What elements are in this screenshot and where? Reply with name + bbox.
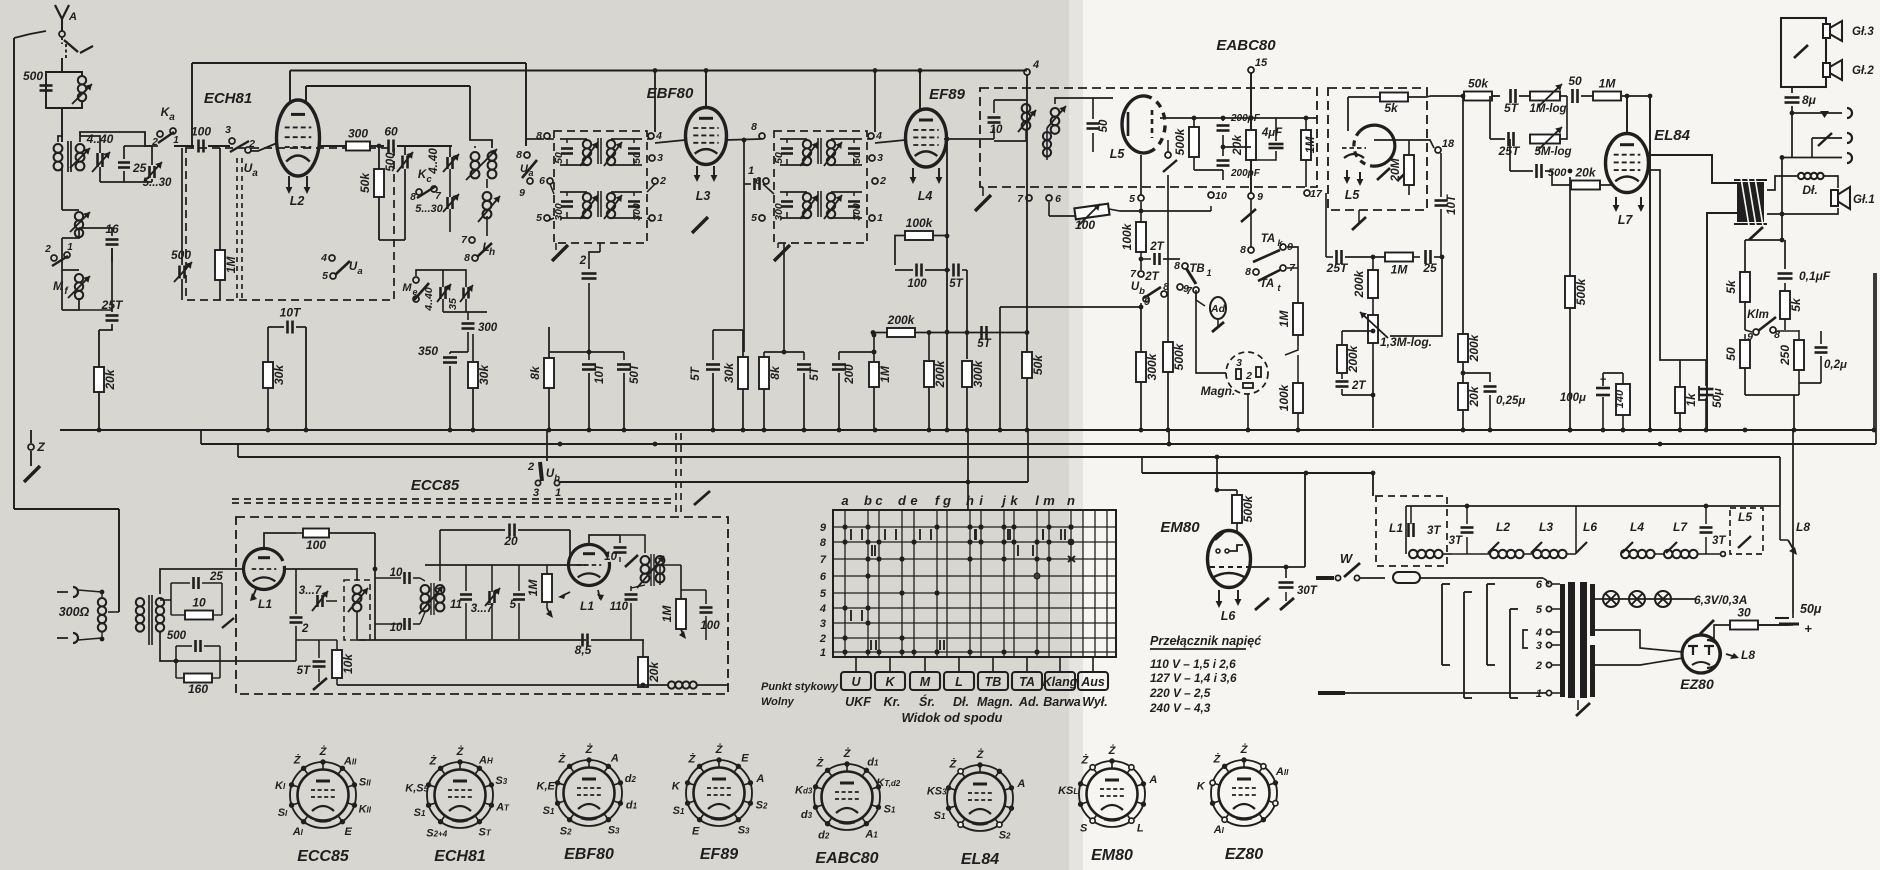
- resistor 30k (AGC): [267, 327, 269, 362]
- svg-text:6: 6: [539, 175, 545, 187]
- svg-text:110: 110: [610, 601, 629, 613]
- svg-text:L5: L5: [1110, 147, 1126, 161]
- svg-text:SI: SI: [278, 807, 288, 819]
- switch 3-2 band: [229, 138, 235, 144]
- heater lamps: [1588, 598, 1598, 600]
- IF cap: [628, 147, 640, 150]
- wire into detector box: [988, 139, 990, 141]
- svg-text:5...30: 5...30: [143, 177, 172, 189]
- osc transformer: [421, 585, 430, 594]
- heater ground blade: [1700, 620, 1714, 634]
- resistor 1M (AF out): [1301, 130, 1311, 160]
- svg-text:Magn.: Magn.: [1201, 384, 1236, 398]
- IF wires: [560, 138, 587, 140]
- resistor 500k (detector load): [1189, 127, 1199, 157]
- IF coil pair: [803, 140, 811, 148]
- svg-text:6: 6: [820, 571, 827, 583]
- svg-text:100μ: 100μ: [1560, 392, 1586, 404]
- svg-text:L8: L8: [1796, 520, 1810, 534]
- switch TB1: [1182, 263, 1188, 269]
- svg-text:ECC85: ECC85: [297, 848, 350, 865]
- svg-text:0,2μ: 0,2μ: [1824, 359, 1847, 371]
- cap 50T: [623, 352, 625, 360]
- svg-text:L4: L4: [1630, 520, 1644, 534]
- svg-text:35: 35: [447, 298, 459, 310]
- output transformer ground: [1749, 227, 1763, 240]
- pin diagram EL84: [947, 765, 1013, 831]
- wire from 20k bottom: [641, 683, 646, 688]
- resistor 500k (EL84 grid leak): [1565, 276, 1575, 308]
- top bus y70: [290, 70, 1027, 72]
- svg-text:L1: L1: [258, 597, 272, 611]
- IF coil pair: [583, 193, 591, 201]
- svg-text:d: d: [898, 493, 907, 508]
- IF coil pair: [803, 193, 811, 201]
- IF wires: [560, 191, 587, 193]
- cap 5T (ecc85): [313, 660, 326, 663]
- svg-text:L6: L6: [1583, 520, 1597, 534]
- svg-text:1: 1: [748, 165, 754, 177]
- wires IF2 right: [867, 138, 871, 140]
- cap 5T: [803, 352, 805, 360]
- svg-text:1M: 1M: [224, 256, 238, 274]
- svg-text:d2: d2: [625, 773, 637, 785]
- resistor 300k: [962, 361, 972, 387]
- svg-text:W: W: [1340, 551, 1354, 566]
- cap 10 (triode2 plate): [619, 535, 621, 543]
- pin diagram EM80: [1079, 761, 1145, 827]
- svg-text:ECH81: ECH81: [434, 848, 486, 865]
- svg-text:300: 300: [478, 322, 498, 334]
- tube EABC80 (detector triode+diodes): [1122, 96, 1149, 153]
- osc out transformer: [641, 556, 650, 565]
- IF cap: [561, 200, 573, 203]
- resistor 30k (osc grid): [472, 352, 474, 358]
- switch TAk: [1248, 247, 1254, 253]
- svg-text:TB: TB: [985, 675, 1002, 689]
- jack hooks: [73, 587, 78, 597]
- svg-text:1M: 1M: [1277, 310, 1291, 328]
- resistor 20k: [1246, 130, 1256, 160]
- resistor 8k: [548, 327, 550, 358]
- chain mid drops: [1489, 506, 1491, 546]
- svg-text:1M-log: 1M-log: [1529, 103, 1566, 115]
- tube EL84: [1606, 134, 1649, 193]
- B+ from EZ80: [1720, 653, 1731, 655]
- ground IF1: [552, 245, 568, 261]
- matrix grid verticals: [844, 510, 846, 657]
- svg-text:Z: Z: [36, 440, 45, 454]
- cap 50u (cathode bypass): [1699, 388, 1714, 391]
- L5 dashed box (chain): [1730, 508, 1763, 554]
- svg-text:d1: d1: [626, 799, 638, 811]
- cap 200pF bottom: [1217, 159, 1230, 162]
- svg-text:Ż: Ż: [558, 752, 567, 765]
- matrix frame: [833, 510, 1116, 657]
- svg-text:5: 5: [751, 212, 757, 224]
- top bus y86: [306, 85, 470, 87]
- svg-text:ECH81: ECH81: [204, 90, 252, 107]
- cap 25 parallel: [192, 577, 195, 589]
- svg-text:S2: S2: [756, 799, 768, 811]
- svg-text:1: 1: [1206, 268, 1211, 278]
- wire grid return: [305, 327, 307, 428]
- svg-text:2: 2: [44, 244, 51, 255]
- selector button L: [958, 657, 960, 672]
- switch TAt: [1253, 269, 1259, 275]
- svg-text:10: 10: [990, 124, 1003, 136]
- tube EBF80: [686, 108, 727, 165]
- cap 100: [915, 264, 918, 277]
- svg-text:S1: S1: [414, 807, 426, 819]
- svg-text:Ż: Ż: [293, 753, 302, 766]
- feedback network: resistor 5k: [1740, 272, 1750, 302]
- svg-text:EABC80: EABC80: [1216, 37, 1276, 54]
- resistor 100 (triode1 plate): [303, 529, 329, 538]
- varcap 3...7 (2): [488, 591, 491, 603]
- svg-text:20k: 20k: [1574, 166, 1596, 180]
- svg-text:20k: 20k: [1230, 134, 1244, 156]
- wires Magn: [1196, 290, 1226, 373]
- svg-text:5k: 5k: [1789, 297, 1803, 312]
- svg-text:Ż: Ż: [976, 748, 985, 761]
- svg-text:c: c: [875, 493, 883, 508]
- ratio detector cap 10: [988, 116, 1001, 119]
- fuse: [1393, 572, 1420, 583]
- svg-text:TA: TA: [1261, 233, 1275, 245]
- cap 10T (below 18): [1440, 153, 1442, 197]
- svg-text:Ad.: Ad.: [1018, 695, 1039, 709]
- cap 25T: [106, 314, 119, 317]
- svg-text:300: 300: [553, 203, 565, 221]
- svg-text:30k: 30k: [272, 364, 286, 385]
- svg-text:d3: d3: [801, 809, 813, 821]
- EL84 plate wire: [1648, 155, 1737, 183]
- svg-text:3: 3: [1236, 357, 1242, 369]
- svg-text:3: 3: [820, 618, 826, 630]
- svg-text:L7: L7: [1618, 213, 1634, 227]
- EM80 ground blade: [1255, 598, 1269, 610]
- svg-text:E: E: [345, 826, 353, 838]
- svg-text:E: E: [692, 825, 700, 837]
- resistor 30k: [742, 330, 744, 357]
- svg-text:TA: TA: [1019, 675, 1035, 689]
- resistor 200k (volume feed): [1462, 96, 1464, 334]
- svg-text:10: 10: [604, 551, 617, 563]
- antenna A: [55, 5, 69, 19]
- svg-text:2: 2: [1245, 370, 1252, 382]
- svg-text:5k: 5k: [1384, 101, 1399, 115]
- left edge vertical wire: [13, 38, 15, 428]
- switch Mf 2-1: [51, 255, 57, 261]
- switch Ua 8-9 (IF1): [524, 152, 530, 158]
- svg-text:E: E: [741, 752, 749, 764]
- svg-text:25: 25: [209, 571, 223, 583]
- matrix feed wire: [967, 430, 969, 510]
- svg-text:8k: 8k: [768, 365, 782, 380]
- svg-text:100: 100: [191, 125, 211, 139]
- svg-text:15: 15: [1255, 57, 1268, 69]
- cap 0,25u: [1463, 373, 1490, 382]
- resistor 1M (osc grid): [542, 574, 552, 602]
- svg-text:2: 2: [879, 175, 886, 187]
- terminal 7 / switch Ub: [1138, 271, 1144, 277]
- heater line bottom of box: [337, 684, 668, 686]
- cap 200: [838, 352, 840, 360]
- B+ lead to output transformer: [1707, 213, 1737, 430]
- svg-text:KSL: KSL: [1058, 785, 1078, 797]
- cap 110: [625, 593, 638, 596]
- svg-text:EM80: EM80: [1091, 847, 1133, 864]
- svg-text:4: 4: [1535, 627, 1542, 639]
- pot 1M-log: [1530, 92, 1560, 101]
- svg-text:1k: 1k: [1684, 392, 1698, 407]
- EM80 heater arrows L6: [1218, 590, 1220, 603]
- svg-text:L1: L1: [580, 599, 594, 613]
- svg-text:Ż: Ż: [843, 747, 852, 760]
- cap 3T (2): [1461, 526, 1474, 529]
- wires TA: [1250, 199, 1252, 247]
- wire speaker net vertical: [1811, 138, 1813, 158]
- svg-text:Ż: Ż: [1081, 753, 1090, 766]
- svg-text:2: 2: [1535, 660, 1542, 672]
- headphone jacks: [1820, 111, 1829, 118]
- svg-text:2T: 2T: [1149, 241, 1164, 253]
- resistor 50k: [1026, 75, 1028, 352]
- svg-text:500k: 500k: [1173, 127, 1187, 155]
- selector button U: [855, 657, 857, 672]
- ECC85 triode 1: [244, 548, 285, 589]
- EF89 plate vertical: [946, 140, 948, 428]
- ground blade under box: [1352, 217, 1366, 230]
- svg-text:EF89: EF89: [700, 846, 738, 863]
- matrix bridges row4-3: [850, 610, 852, 621]
- svg-text:Ż: Ż: [319, 745, 328, 758]
- svg-text:S1: S1: [934, 810, 946, 822]
- svg-text:4μF: 4μF: [1261, 127, 1283, 139]
- svg-text:50k: 50k: [1031, 354, 1045, 375]
- cap 50 (EQ): [1571, 89, 1574, 103]
- svg-text:KII: KII: [359, 804, 372, 816]
- main bus y444: [201, 443, 1876, 445]
- wire IF2 bottom: [783, 243, 785, 352]
- L1 chain coil: [1409, 550, 1417, 558]
- svg-text:1M: 1M: [1599, 77, 1617, 91]
- wire Ub down: [1140, 303, 1142, 307]
- cap 2T: [1336, 380, 1349, 383]
- resistor 20k (EL84 grid): [1545, 171, 1571, 185]
- wire: [370, 145, 384, 147]
- svg-text:M: M: [920, 675, 931, 689]
- heater line y482 (Ub): [560, 481, 1028, 483]
- wire osc net: [374, 533, 376, 640]
- svg-text:500: 500: [23, 69, 43, 83]
- terminal 7 8 Lh switch: [469, 237, 475, 243]
- svg-text:100k: 100k: [906, 216, 934, 230]
- svg-text:Kr.: Kr.: [884, 695, 901, 709]
- svg-text:200k: 200k: [1346, 344, 1360, 373]
- ECC85 dashed box: [236, 517, 728, 694]
- speaker Gl.3: [1823, 24, 1830, 38]
- svg-text:KT,d2: KT,d2: [876, 777, 900, 789]
- svg-text:S: S: [1080, 823, 1088, 835]
- svg-text:L: L: [1137, 823, 1144, 835]
- svg-text:1M: 1M: [660, 605, 674, 623]
- svg-text:5T: 5T: [690, 366, 702, 380]
- svg-text:d2: d2: [818, 829, 830, 841]
- svg-text:8μ: 8μ: [1802, 93, 1817, 107]
- input transformer wires: [78, 588, 102, 594]
- pot 5M-log: [1530, 135, 1560, 144]
- svg-text:Ż: Ż: [816, 756, 825, 769]
- main bus y430: [60, 429, 1876, 431]
- svg-text:S3: S3: [495, 775, 507, 787]
- svg-text:2: 2: [151, 137, 158, 148]
- wire 5 to network: [1140, 202, 1142, 211]
- cap 60: [387, 140, 390, 153]
- svg-text:1: 1: [657, 212, 663, 224]
- svg-text:18: 18: [1442, 138, 1455, 150]
- resistor 20k (osc): [638, 657, 648, 687]
- cap 200pF top: [1217, 124, 1230, 127]
- svg-text:8: 8: [410, 192, 416, 203]
- EZ80 wires: [1595, 630, 1683, 652]
- cap 5: [513, 593, 525, 596]
- svg-text:500: 500: [385, 152, 397, 172]
- svg-text:Klm: Klm: [1747, 309, 1769, 321]
- svg-text:1M: 1M: [1391, 263, 1409, 277]
- svg-text:9: 9: [1257, 191, 1263, 203]
- svg-text:A: A: [755, 773, 764, 785]
- ground Z: [24, 466, 40, 482]
- svg-text:50: 50: [631, 152, 643, 164]
- svg-text:30: 30: [1737, 606, 1751, 620]
- tank circuit 500 / L: [46, 72, 62, 108]
- svg-text:1M: 1M: [1303, 136, 1317, 154]
- wire Ub horizontal: [1000, 306, 1141, 308]
- loop 25/10: [170, 578, 172, 612]
- svg-text:5T: 5T: [1504, 101, 1520, 115]
- svg-text:l: l: [1035, 493, 1039, 508]
- oscillator coil lower: [483, 192, 492, 201]
- cap 50: [1087, 122, 1100, 125]
- svg-text:Gł.2: Gł.2: [1852, 65, 1874, 77]
- svg-text:60: 60: [384, 125, 398, 139]
- speaker wires: [1767, 176, 1797, 190]
- svg-text:3: 3: [657, 152, 663, 164]
- cap 350: [443, 356, 457, 359]
- cap 300: [462, 322, 475, 325]
- svg-text:M: M: [402, 282, 412, 294]
- svg-text:AI: AI: [292, 826, 304, 838]
- mains line bottom: [1318, 691, 1345, 695]
- cap 5T: [712, 330, 714, 360]
- coil Mf variable: [75, 274, 83, 282]
- resistor 20k (volume divider): [1458, 383, 1468, 410]
- svg-text:KS3: KS3: [927, 785, 947, 797]
- switch Ub heater: [546, 430, 548, 461]
- switch Me: [413, 277, 419, 283]
- svg-text:50: 50: [851, 152, 863, 164]
- wire jacks: [1809, 138, 1811, 158]
- svg-text:2: 2: [819, 633, 826, 645]
- svg-text:1: 1: [1536, 688, 1542, 700]
- blade near dashed feed: [694, 491, 710, 505]
- svg-text:Gł.1: Gł.1: [1853, 194, 1875, 206]
- svg-text:1,3M-log.: 1,3M-log.: [1380, 335, 1432, 349]
- triode2 top bus wire: [425, 564, 586, 566]
- EM80 right wire: [1250, 566, 1305, 568]
- svg-text:Wolny: Wolny: [761, 696, 795, 708]
- ganged tuning dashed link: [236, 158, 238, 300]
- svg-text:n: n: [1067, 493, 1075, 508]
- svg-text:EM80: EM80: [1160, 519, 1200, 536]
- svg-text:1: 1: [877, 212, 883, 224]
- pin diagram ECC85: [290, 762, 356, 828]
- EABC80 diode load wire: [1160, 117, 1190, 119]
- resistor 50: [1740, 340, 1750, 368]
- svg-text:3: 3: [533, 487, 539, 499]
- ratio coil 2 (tertiary): [1051, 108, 1060, 117]
- wire tank to input transformer: [61, 108, 63, 142]
- resistor 250: [1794, 340, 1804, 370]
- cap 500 parallel: [194, 640, 197, 652]
- svg-text:9: 9: [519, 187, 525, 199]
- svg-text:K,E: K,E: [537, 780, 556, 792]
- pin diagram EBF80: [556, 760, 622, 826]
- ground IF2: [774, 245, 790, 261]
- selector button Aus: [1092, 657, 1094, 672]
- EF89 wires: [875, 140, 905, 143]
- svg-text:K,S5: K,S5: [405, 782, 428, 794]
- EL84 screen wire: [1626, 96, 1628, 133]
- wire: [58, 136, 62, 142]
- primary taps: [1546, 581, 1551, 586]
- B+ riser right: [1758, 624, 1782, 626]
- svg-text:200k: 200k: [887, 313, 916, 327]
- svg-text:S3: S3: [738, 825, 750, 837]
- switch blade input: [222, 618, 234, 628]
- potentiometer 100 (FM balance): [1048, 202, 1050, 216]
- selector button TB: [992, 657, 994, 672]
- svg-text:6: 6: [1055, 193, 1061, 205]
- secondary wires: [160, 569, 244, 594]
- cap 8u: [1791, 87, 1793, 93]
- IF wires: [780, 191, 807, 193]
- input transformer coils: [98, 598, 106, 606]
- resistor 10k: [332, 650, 342, 678]
- wire net to bus: [1873, 273, 1875, 430]
- L8 arrow right: [1726, 654, 1736, 657]
- matrix bridges row8-7: [871, 545, 873, 556]
- wires IF1: [526, 139, 544, 146]
- svg-text:U: U: [851, 675, 861, 689]
- cap 5T: [952, 264, 955, 277]
- cap 10T: [588, 352, 590, 360]
- svg-text:EF89: EF89: [929, 86, 966, 103]
- resistor 200k (lower): [1337, 345, 1347, 373]
- wire: [1781, 214, 1783, 240]
- svg-text:1: 1: [173, 135, 179, 146]
- wire to band switch: [208, 145, 230, 147]
- svg-text:50μ: 50μ: [1712, 388, 1724, 408]
- svg-text:Ż: Ż: [585, 743, 594, 756]
- speaker selection box: [1781, 18, 1826, 87]
- svg-text:300: 300: [348, 127, 368, 141]
- resistor 300: [346, 142, 370, 151]
- caps on 565 bus: 11: [460, 593, 472, 596]
- svg-text:300k: 300k: [1145, 352, 1159, 380]
